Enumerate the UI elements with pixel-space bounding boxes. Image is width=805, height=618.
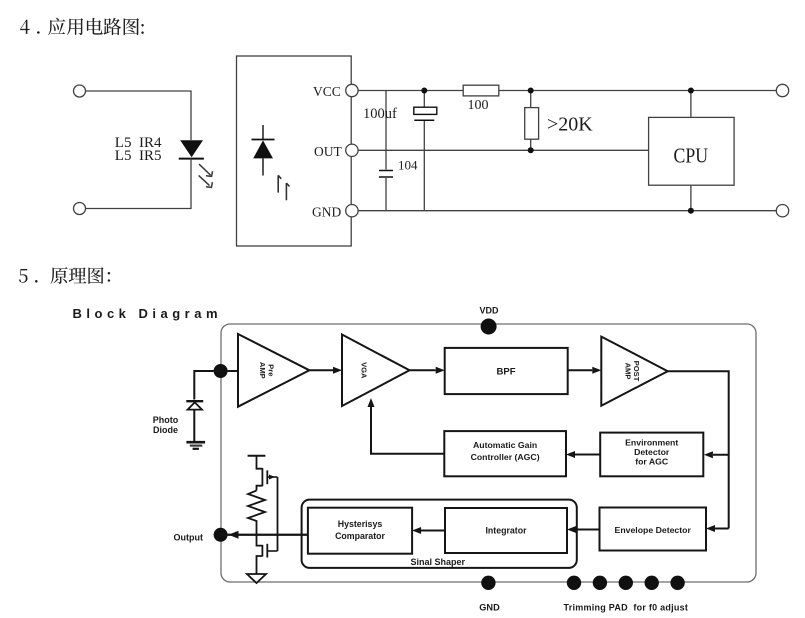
- svg-text:for AGC: for AGC: [635, 457, 669, 467]
- capacitor C2 branch wire (x=386): [385, 91, 387, 211]
- terminal P3 top-right: [776, 84, 788, 96]
- svg-text:Controller (AGC): Controller (AGC): [471, 452, 540, 462]
- wire BPF to POST AMP: [568, 369, 593, 371]
- svg-text:Block Diagram: Block Diagram: [73, 306, 218, 321]
- amplifier VGA: [342, 335, 410, 407]
- wire Pre AMP to VGA: [309, 369, 333, 371]
- pin OUT circle: [346, 144, 358, 156]
- block Automatic Gain Controller: [444, 431, 566, 476]
- resistor R2 (>20K) vertical: [525, 91, 539, 151]
- resistor R1 (100) in series: [463, 85, 499, 96]
- container Sinal Shaper: [302, 500, 577, 568]
- svg-text:Photo: Photo: [153, 415, 179, 425]
- CPU block U2: [649, 117, 735, 185]
- svg-text:AMP: AMP: [258, 362, 267, 379]
- receiver module box U1: [237, 56, 352, 246]
- svg-text:Diode: Diode: [153, 425, 178, 435]
- junction dot CPU/VCC: [688, 88, 694, 94]
- svg-text:CPU: CPU: [674, 144, 709, 168]
- heading section 5 (原理图): [19, 267, 110, 284]
- OUT rail wire: [358, 149, 648, 151]
- block BPF: [445, 348, 568, 394]
- svg-text:Trimming PAD for f0 adjust: Trimming PAD for f0 adjust: [564, 603, 689, 613]
- transistor Q1 PMOS: [257, 456, 278, 491]
- terminal P4 bottom-right: [776, 205, 788, 217]
- svg-text:Detector: Detector: [634, 447, 670, 457]
- svg-text:BPF: BPF: [497, 367, 516, 378]
- svg-text:100uf: 100uf: [363, 106, 397, 122]
- capacitor C1 branch wire (x=424): [423, 91, 425, 211]
- svg-text:100: 100: [468, 98, 489, 113]
- GND rail wire: [358, 210, 776, 212]
- VCC rail wire: [358, 90, 776, 92]
- output node dot: [214, 528, 228, 542]
- input node dot: [214, 364, 228, 378]
- resistor R3 zigzag: [248, 491, 265, 535]
- svg-text:>20K: >20K: [547, 114, 593, 136]
- wire Environment to AGC: [575, 454, 600, 456]
- photodiode D2: [186, 401, 203, 441]
- svg-text:Hysterisys: Hysterisys: [338, 519, 383, 529]
- pin VCC circle: [346, 84, 358, 96]
- junction dot CPU/GND: [688, 208, 694, 214]
- wire Envelope to Integrator: [576, 529, 600, 531]
- wire Hysterisys to output: [228, 534, 308, 536]
- label POST AMP (rotated): [624, 361, 642, 382]
- capacitor C2 plates (104): [379, 171, 393, 178]
- block Hysterisys Comparator: [308, 508, 412, 554]
- capacitor C1 electrolytic plates (100uf): [414, 107, 437, 114]
- svg-text:Output: Output: [174, 532, 204, 542]
- wire bus to Envelope Detector: [715, 528, 729, 530]
- junction dot R2/VCC: [528, 88, 534, 94]
- wire input dot to photodiode: [194, 371, 220, 400]
- svg-text:GND: GND: [479, 603, 500, 613]
- trimming pad dots: [567, 576, 685, 590]
- terminal P2 bottom-left: [74, 203, 86, 215]
- svg-text:104: 104: [398, 158, 418, 173]
- svg-text:GND: GND: [312, 205, 341, 220]
- terminal P1 top-left: [74, 85, 86, 97]
- amplifier POST AMP: [601, 337, 667, 406]
- ground under photodiode: [186, 442, 205, 449]
- block Envelope Detector: [600, 508, 707, 551]
- svg-text:AMP: AMP: [624, 363, 633, 380]
- wire VGA to BPF: [410, 369, 436, 371]
- light arrows into photodiode: [278, 175, 289, 200]
- wire Integrator to Hysterisys: [421, 530, 445, 532]
- svg-text:OUT: OUT: [314, 144, 342, 159]
- svg-text:Envelope Detector: Envelope Detector: [615, 525, 692, 535]
- svg-text:Integrator: Integrator: [485, 526, 527, 536]
- LED light emission arrows: [199, 164, 213, 187]
- svg-text:Comparator: Comparator: [335, 531, 385, 541]
- ground triangle: [247, 574, 266, 583]
- photodiode inside module: [252, 125, 275, 176]
- wire gate bus: [277, 477, 279, 551]
- CPU VCC wire: [690, 91, 692, 118]
- block Integrator: [445, 508, 567, 553]
- wire output row: [221, 534, 308, 536]
- svg-text:VGA: VGA: [359, 362, 368, 379]
- svg-text:VCC: VCC: [313, 84, 341, 99]
- svg-text:Environment: Environment: [625, 438, 678, 448]
- wire bus to Environment Detector: [713, 454, 729, 456]
- wire POST AMP to right bus: [668, 371, 729, 528]
- svg-text:L5 IR5: L5 IR5: [115, 148, 162, 164]
- chip outline rounded box: [221, 324, 756, 582]
- svg-text:VDD: VDD: [479, 306, 499, 316]
- pin GND circle: [346, 205, 358, 217]
- wire input to Pre AMP: [228, 370, 238, 372]
- junction dot R2/OUT: [528, 147, 534, 153]
- junction dot C1/VCC: [421, 88, 427, 94]
- svg-text:Sinal Shaper: Sinal Shaper: [411, 557, 466, 567]
- CPU GND wire: [690, 185, 692, 211]
- label VGA (rotated): [359, 362, 368, 379]
- heading section 4 (应用电路图): [20, 18, 144, 35]
- VDD stub bar: [248, 455, 266, 457]
- label Pre AMP (rotated): [258, 362, 276, 379]
- svg-text:Automatic Gain: Automatic Gain: [473, 440, 537, 450]
- transistor Q2 NMOS: [257, 535, 278, 574]
- LED D1: [179, 140, 204, 158]
- wire AGC feedback to VGA: [371, 407, 444, 454]
- VDD pad dot: [481, 319, 497, 335]
- block Environment Detector: [600, 433, 703, 477]
- amplifier Pre AMP: [238, 334, 309, 407]
- wire LED cathode to P2: [86, 159, 192, 209]
- wire P1 to LED anode: [86, 91, 192, 140]
- GND pad dot: [481, 576, 495, 590]
